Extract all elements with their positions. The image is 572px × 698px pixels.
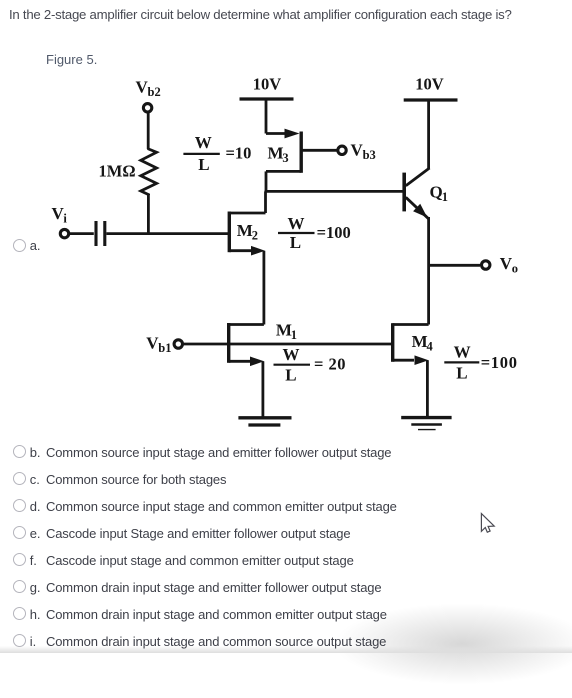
svg-text:M: M bbox=[276, 321, 292, 340]
svg-text:M: M bbox=[237, 221, 253, 240]
svg-text:M: M bbox=[268, 144, 284, 163]
svg-text:= 20: = 20 bbox=[314, 355, 346, 374]
svg-text:o: o bbox=[512, 262, 518, 276]
svg-text:i: i bbox=[63, 212, 67, 226]
svg-text:L: L bbox=[285, 366, 296, 385]
svg-text:L: L bbox=[290, 233, 301, 252]
svg-text:b3: b3 bbox=[363, 148, 376, 162]
svg-text:b2: b2 bbox=[148, 85, 161, 99]
svg-text:1: 1 bbox=[442, 190, 448, 204]
svg-text:=100: =100 bbox=[317, 223, 351, 242]
svg-text:b1: b1 bbox=[158, 341, 171, 355]
svg-text:W: W bbox=[195, 133, 212, 152]
svg-text:10V: 10V bbox=[253, 75, 281, 94]
svg-text:L: L bbox=[456, 364, 467, 383]
svg-text:1MΩ: 1MΩ bbox=[99, 162, 136, 181]
svg-text:2: 2 bbox=[252, 229, 258, 243]
svg-text:3: 3 bbox=[282, 151, 288, 165]
svg-text:W: W bbox=[454, 343, 471, 362]
svg-text:1: 1 bbox=[291, 328, 297, 342]
svg-text:V: V bbox=[351, 141, 364, 160]
svg-text:L: L bbox=[198, 155, 209, 174]
svg-text:4: 4 bbox=[427, 340, 434, 354]
svg-text:W: W bbox=[288, 214, 305, 233]
svg-text:=10: =10 bbox=[226, 144, 252, 163]
svg-text:=100: =100 bbox=[481, 353, 518, 372]
svg-text:M: M bbox=[412, 332, 428, 351]
svg-text:10V: 10V bbox=[415, 75, 444, 94]
svg-text:W: W bbox=[283, 345, 300, 364]
